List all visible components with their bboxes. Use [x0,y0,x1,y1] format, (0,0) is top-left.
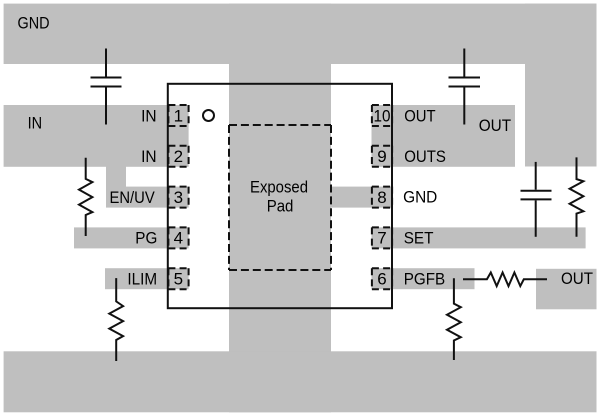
svg-text:OUT: OUT [404,106,435,125]
pin 1 pad [168,105,188,126]
svg-text:3: 3 [174,188,183,207]
capacitor C3 (SET cap, SET to GND) [521,162,552,237]
svg-text:ILIM: ILIM [127,270,157,289]
ground copper column (middle, exposed pad net) [229,4,331,413]
svg-text:6: 6 [377,270,386,289]
svg-text:5: 5 [174,270,183,289]
resistor R1 (PG pull-up to IN) [79,158,92,236]
pin 10 pad [372,105,392,126]
svg-text:2: 2 [174,147,183,166]
pin 9 pad [372,146,392,167]
capacitor C1 (input cap, IN to GND) [91,49,122,125]
svg-text:OUTS: OUTS [404,147,446,166]
svg-text:PGFB: PGFB [404,270,445,289]
resistor R2 (ILIM to GND) [109,278,123,361]
svg-text:GND: GND [18,14,50,33]
svg-text:8: 8 [377,188,386,207]
svg-text:GND: GND [403,188,437,207]
ground copper column (right) [525,4,597,167]
svg-text:OUT: OUT [479,116,511,135]
PGFB trace [372,268,475,289]
resistor R3 (PGFB pull-down to GND) [447,278,461,360]
bottom copper plane [4,351,597,412]
resistor R4 (SET to GND) [570,157,584,236]
svg-text:IN: IN [28,114,42,133]
ILIM trace [105,268,189,289]
svg-text:IN: IN [141,147,157,166]
IN to EN/UV connector trace [106,160,126,190]
resistor R5 (PGFB to OUT, horizontal) [463,273,547,287]
pin 8 pad [372,187,392,208]
svg-text:Pad: Pad [267,196,294,215]
capacitor C2 (output cap, OUT to GND) [449,49,481,125]
OUT copper pour (right of pins 10/9) [372,105,516,167]
svg-text:7: 7 [377,229,386,248]
svg-text:Exposed: Exposed [250,178,308,197]
pin 5 pad [168,268,188,289]
svg-text:SET: SET [404,228,434,247]
svg-text:10: 10 [374,106,391,125]
pin 1 indicator [203,110,214,121]
svg-text:1: 1 [174,106,183,125]
PG trace [74,227,189,248]
pin 3 pad [168,187,188,208]
IC U1 package outline [168,84,392,308]
pin 2 pad [168,146,188,167]
svg-text:IN: IN [141,106,157,125]
svg-text:EN/UV: EN/UV [110,188,156,207]
pin 6 pad [372,268,392,289]
svg-text:OUT: OUT [561,269,593,288]
SET trace [372,227,586,248]
EN/UV trace [106,187,189,208]
GND trace pin 8 [330,187,392,208]
pin 7 pad [372,227,392,248]
pin 4 pad [168,227,188,248]
OUT pad (bottom right) [536,269,597,310]
svg-text:PG: PG [135,229,157,248]
GND copper plane (top) [4,4,597,64]
svg-text:4: 4 [174,229,183,248]
svg-text:9: 9 [377,147,386,166]
exposed pad (dashed) [229,125,331,270]
IN copper pour [4,105,189,167]
